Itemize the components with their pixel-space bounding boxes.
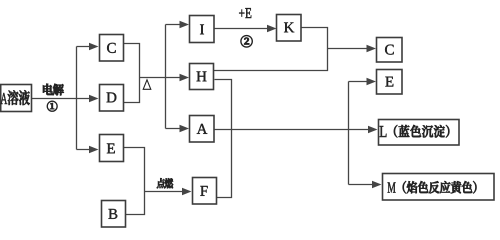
box L 蓝色沉淀 (blue precipitate) [379, 120, 460, 146]
label △ heat [143, 80, 151, 90]
box F [193, 178, 217, 205]
box H [190, 64, 214, 90]
box K [277, 15, 302, 42]
box E (right result) [377, 70, 403, 95]
wire: H second port down to F port [215, 80, 232, 198]
label +E [239, 10, 244, 17]
box M 焰色反应黄色 (flame test yellow) [383, 174, 495, 201]
label 电解 (electrolysis) [43, 84, 53, 95]
label 点燃 (ignite) [157, 178, 165, 188]
box A (middle product) [190, 116, 215, 143]
box E [100, 135, 124, 162]
label ① step 1 [47, 101, 57, 111]
wire: A output to L, branching to E(right) and M [214, 129, 374, 131]
wire: electrolysis arrow from A-solution to D [31, 98, 96, 100]
wire: K and H outputs merge to C(right) [213, 28, 328, 71]
box D [100, 85, 124, 112]
box A溶液 (A solution) [1, 85, 32, 112]
wire: branch vertical feeding C and E [76, 47, 78, 150]
box C (from electrolysis) [100, 35, 124, 62]
label ② step 2 [241, 35, 253, 47]
box C (right result) [377, 38, 403, 63]
box I [190, 16, 215, 43]
wire: C and D outputs merge, heated to H [123, 44, 140, 103]
wire: E and B outputs merge, ignited to F [123, 148, 145, 215]
box B [102, 201, 126, 228]
wire: long vertical branching up to I and down to A [165, 25, 167, 129]
wire: I to K [214, 28, 273, 30]
